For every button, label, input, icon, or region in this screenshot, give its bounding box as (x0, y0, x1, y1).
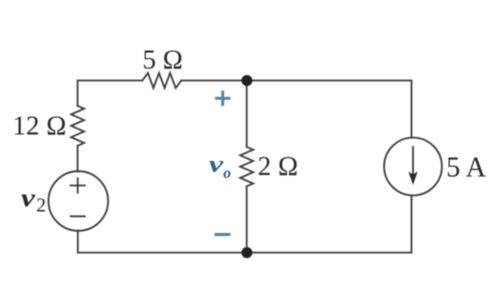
resistor R 2ohm zigzag (240, 147, 253, 186)
node top (241, 75, 252, 86)
wire left mid (77, 146, 79, 172)
svg-text:5 Ω: 5 Ω (143, 44, 183, 74)
minus inside source (71, 215, 85, 217)
blue minus marker (214, 233, 230, 236)
current source arrowhead (408, 172, 417, 186)
svg-text:v: v (21, 185, 35, 212)
resistor R 5ohm zigzag (142, 73, 181, 88)
wire middle top (246, 81, 248, 147)
blue plus marker (214, 91, 230, 235)
wire middle bottom (246, 186, 248, 252)
current source arrow shaft (412, 147, 414, 176)
plus inside source (71, 178, 85, 192)
wire top-right horizontal (181, 81, 411, 138)
voltage source v2 circle (49, 171, 109, 231)
svg-text:12 Ω: 12 Ω (13, 111, 67, 141)
svg-text:5 A: 5 A (446, 152, 486, 183)
svg-text:2 Ω: 2 Ω (258, 151, 298, 181)
svg-text:v: v (209, 151, 224, 178)
node bottom (241, 247, 252, 258)
resistor R 12ohm zigzag (71, 106, 84, 146)
current source circle (384, 138, 442, 196)
svg-text:2: 2 (36, 195, 46, 216)
svg-text:o: o (223, 165, 231, 182)
wire bottom-left (78, 196, 412, 253)
wire top-left horizontal (78, 81, 143, 106)
